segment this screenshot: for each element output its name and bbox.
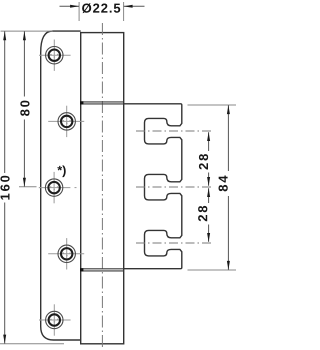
frame part comb with 3 lugs [124,104,182,269]
lug 2 centerline [136,186,212,188]
extension line plate top [1,30,53,32]
dim 160 line [4,31,6,173]
barrel joint top [81,101,124,103]
extension line 160 bottom [0,343,64,345]
screw hole 1 [39,40,71,71]
dim 22.5 extension lines [78,2,80,21]
dim 22.5 label [82,3,91,13]
dim 80 line [23,31,25,96]
dim 28 upper label [199,154,208,169]
note star [57,165,65,177]
dim 80 label [20,101,29,116]
dim 28 upper line [208,132,210,151]
extension line 80 / hole3 [19,186,37,188]
screw hole 4 [48,238,84,269]
barrel joint bottom [81,268,124,270]
dim 22.5 arrows [60,5,80,7]
dim 84 label [219,176,228,192]
screw hole 5 [39,304,71,335]
barrel (pin sleeve) [81,33,124,344]
dim 160 label [0,176,9,200]
dim 84 extension lines [188,104,237,106]
dim 28 lower label [198,206,207,221]
barrel centerline [101,23,103,350]
screw hole 2 [48,106,84,137]
dim 28 lower line [208,188,210,203]
lug 1 centerline [136,130,212,132]
dim 84 line [227,105,229,171]
lug 3 centerline [136,242,212,244]
hinge leaf plate [41,31,81,340]
screw hole 3 (80 ref) [39,172,77,203]
